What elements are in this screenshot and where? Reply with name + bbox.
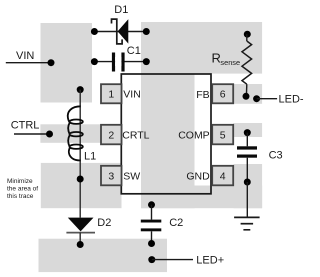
inductor L1: [68, 106, 83, 160]
node C3 bottom: [244, 179, 251, 186]
svg-text:D2: D2: [97, 217, 111, 229]
svg-text:6: 6: [220, 89, 226, 101]
svg-text:this trace: this trace: [7, 193, 34, 200]
IC U1 border: [121, 74, 211, 194]
node C2 bottom: [148, 240, 155, 247]
pin name SW: [123, 170, 140, 182]
copper pour GND arm under IC: [141, 186, 262, 209]
pin 4 box: [212, 166, 233, 186]
note minimize trace area: [7, 178, 38, 200]
svg-text:C1: C1: [127, 45, 141, 57]
copper pour C3 ground pad: [234, 164, 263, 208]
node VIN junction: [48, 59, 55, 66]
svg-text:CTRL: CTRL: [11, 119, 40, 131]
node D1 left: [91, 28, 98, 35]
wire L1 to D2: [79, 90, 81, 218]
wire C2 bottom stub: [151, 231, 153, 243]
node LED- junction: [253, 95, 260, 102]
node LED+ junction: [148, 256, 155, 263]
node L1 bottom junction: [77, 176, 84, 183]
label LED+: [196, 254, 224, 266]
label C1: [127, 45, 141, 57]
svg-text:Minimize: Minimize: [7, 178, 33, 185]
svg-text:4: 4: [220, 170, 226, 182]
svg-text:SW: SW: [123, 170, 140, 182]
copper pour top-right D1/C1 to Rsense: [141, 22, 262, 74]
node Rsense bottom: [243, 93, 250, 100]
label D1: [114, 4, 128, 16]
label LED-: [279, 94, 304, 106]
svg-text:2: 2: [108, 129, 114, 141]
svg-text:VIN: VIN: [16, 50, 34, 62]
copper pour center column under IC: [141, 74, 195, 209]
wire LED+ lead: [152, 259, 193, 261]
wire C3 top stub: [246, 133, 248, 147]
svg-text:COMP: COMP: [178, 129, 210, 141]
svg-text:sense: sense: [220, 58, 240, 67]
pin name COMP: [178, 129, 210, 141]
copper pour VIN top-left: [41, 23, 93, 103]
svg-text:LED-: LED-: [279, 94, 304, 106]
pin 5 box: [212, 125, 233, 145]
svg-text:1: 1: [108, 89, 114, 101]
pin name CRTL: [122, 129, 149, 141]
label L1: [84, 150, 96, 162]
pin 6 box: [212, 84, 233, 103]
net label CTRL: [11, 119, 40, 131]
svg-text:CRTL: CRTL: [122, 129, 149, 141]
label C2: [169, 217, 183, 229]
ground: [234, 217, 260, 229]
pin 2 box: [101, 125, 122, 145]
svg-text:FB: FB: [196, 89, 209, 101]
wire C2 top stub: [151, 205, 153, 220]
diode D2: [66, 218, 95, 233]
wire D1 row: [94, 31, 146, 33]
node L1 top junction: [77, 86, 84, 93]
pin 3 box: [101, 166, 122, 186]
copper pour CTRL trace: [40, 124, 121, 143]
copper pour SW trace: [41, 163, 122, 208]
svg-text:LED+: LED+: [196, 254, 224, 266]
label D2: [97, 217, 111, 229]
svg-text:5: 5: [220, 129, 226, 141]
node CTRL junction: [46, 131, 53, 138]
svg-text:C3: C3: [269, 149, 283, 161]
node C1 right: [143, 58, 150, 65]
node D1 right: [143, 28, 150, 35]
node C3 top: [244, 129, 251, 136]
capacitor C1: [112, 53, 125, 72]
pin name GND: [186, 170, 210, 182]
label Rsense: [212, 51, 241, 67]
copper pour COMP/C3 pad: [233, 123, 262, 137]
node D2 bottom: [77, 241, 84, 248]
wire VIN lead-in: [6, 62, 51, 64]
copper pour LED+ bottom: [39, 239, 168, 272]
svg-text:L1: L1: [84, 150, 96, 162]
resistor Rsense: [242, 34, 252, 96]
wire to ground: [246, 182, 248, 217]
net label VIN: [16, 50, 34, 62]
svg-text:D1: D1: [114, 4, 128, 16]
label C3: [269, 149, 283, 161]
wire C1 row: [94, 61, 146, 63]
capacitor C3: [237, 146, 257, 157]
capacitor C2: [141, 220, 162, 232]
wire D2 to LED+ pour: [79, 233, 81, 245]
wire C3 bottom stub: [246, 158, 248, 182]
node C2 top: [148, 201, 155, 208]
svg-text:VIN: VIN: [123, 88, 141, 100]
diode D1 (schottky): [112, 19, 129, 44]
IC body fill: [121, 74, 211, 194]
svg-text:GND: GND: [186, 170, 210, 182]
copper pour LED- pad: [233, 84, 262, 104]
node C1 left: [91, 58, 98, 65]
pin 1 box: [101, 84, 122, 103]
svg-text:3: 3: [108, 170, 114, 182]
wire CTRL lead-in: [14, 133, 50, 135]
node Rsense top: [244, 31, 251, 38]
svg-text:C2: C2: [169, 217, 183, 229]
pin name VIN: [123, 88, 141, 100]
wire LED- lead: [257, 98, 278, 100]
svg-text:the area of: the area of: [7, 186, 38, 193]
pin name FB: [196, 89, 209, 101]
